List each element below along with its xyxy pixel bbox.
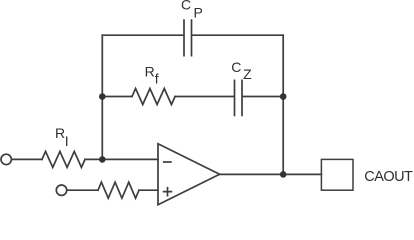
junction dot: right rail / Cz node xyxy=(280,93,287,100)
svg-text:f: f xyxy=(155,71,159,87)
wire: op-amp output to CAOUT box xyxy=(220,173,322,175)
svg-text:I: I xyxy=(65,133,69,149)
junction dot: output node xyxy=(280,171,287,178)
svg-text:C: C xyxy=(231,59,241,75)
resistor Rf xyxy=(132,89,175,105)
capacitor CP xyxy=(184,20,192,56)
op-amp U1 xyxy=(158,144,220,205)
label Rf xyxy=(145,64,159,87)
resistor (non-inverting input) xyxy=(98,182,139,198)
wire: resistor to op-amp plus input xyxy=(139,189,158,191)
wire: right feedback rail vertical xyxy=(282,35,284,174)
op-amp plus pin label xyxy=(164,188,172,196)
svg-text:P: P xyxy=(194,5,203,21)
wire: middle row from Cz to right rail xyxy=(243,96,283,98)
label CP xyxy=(181,0,203,21)
wire: top row right segment from Cp to right rail xyxy=(192,34,283,36)
input terminal (inverting) xyxy=(1,154,11,164)
junction dot: left rail / Rf node xyxy=(99,93,106,100)
svg-text:R: R xyxy=(145,64,155,80)
label CZ xyxy=(231,59,252,82)
wire: left feedback rail vertical xyxy=(101,35,103,159)
CAOUT output box xyxy=(321,159,353,190)
svg-text:CAOUT: CAOUT xyxy=(364,169,413,185)
svg-text:Z: Z xyxy=(243,66,252,82)
resistor RI xyxy=(42,151,85,167)
junction dot: inverting input node xyxy=(99,156,106,163)
wire: RI to inverting node and op-amp minus input xyxy=(85,158,158,160)
svg-text:C: C xyxy=(181,0,191,12)
label RI xyxy=(55,125,69,149)
label CAOUT xyxy=(364,169,413,185)
wire: middle row from Rf to Cz xyxy=(175,96,234,98)
capacitor CZ xyxy=(235,80,243,115)
wire: non-inverting terminal to resistor xyxy=(67,189,98,191)
wire: middle row from left rail to Rf xyxy=(102,96,132,98)
op-amp minus pin label xyxy=(164,161,171,163)
input terminal (non-inverting) xyxy=(56,185,66,195)
svg-text:R: R xyxy=(55,125,65,141)
wire: top row left segment to Cp xyxy=(102,34,183,36)
wire: inverting input terminal to RI xyxy=(12,158,42,160)
